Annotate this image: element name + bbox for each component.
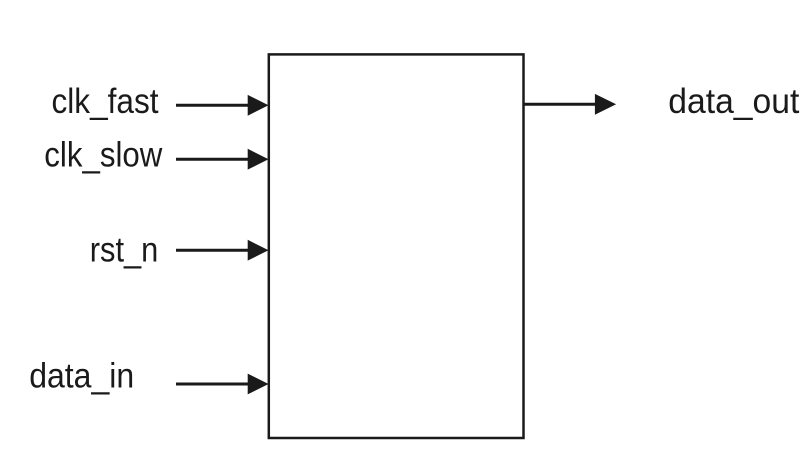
svg-text:data_in: data_in	[29, 357, 134, 396]
svg-text:clk_slow: clk_slow	[44, 135, 163, 174]
svg-text:data_out: data_out	[668, 82, 799, 121]
svg-text:rst_n: rst_n	[90, 231, 159, 270]
svg-text:clk_fast: clk_fast	[52, 82, 159, 121]
